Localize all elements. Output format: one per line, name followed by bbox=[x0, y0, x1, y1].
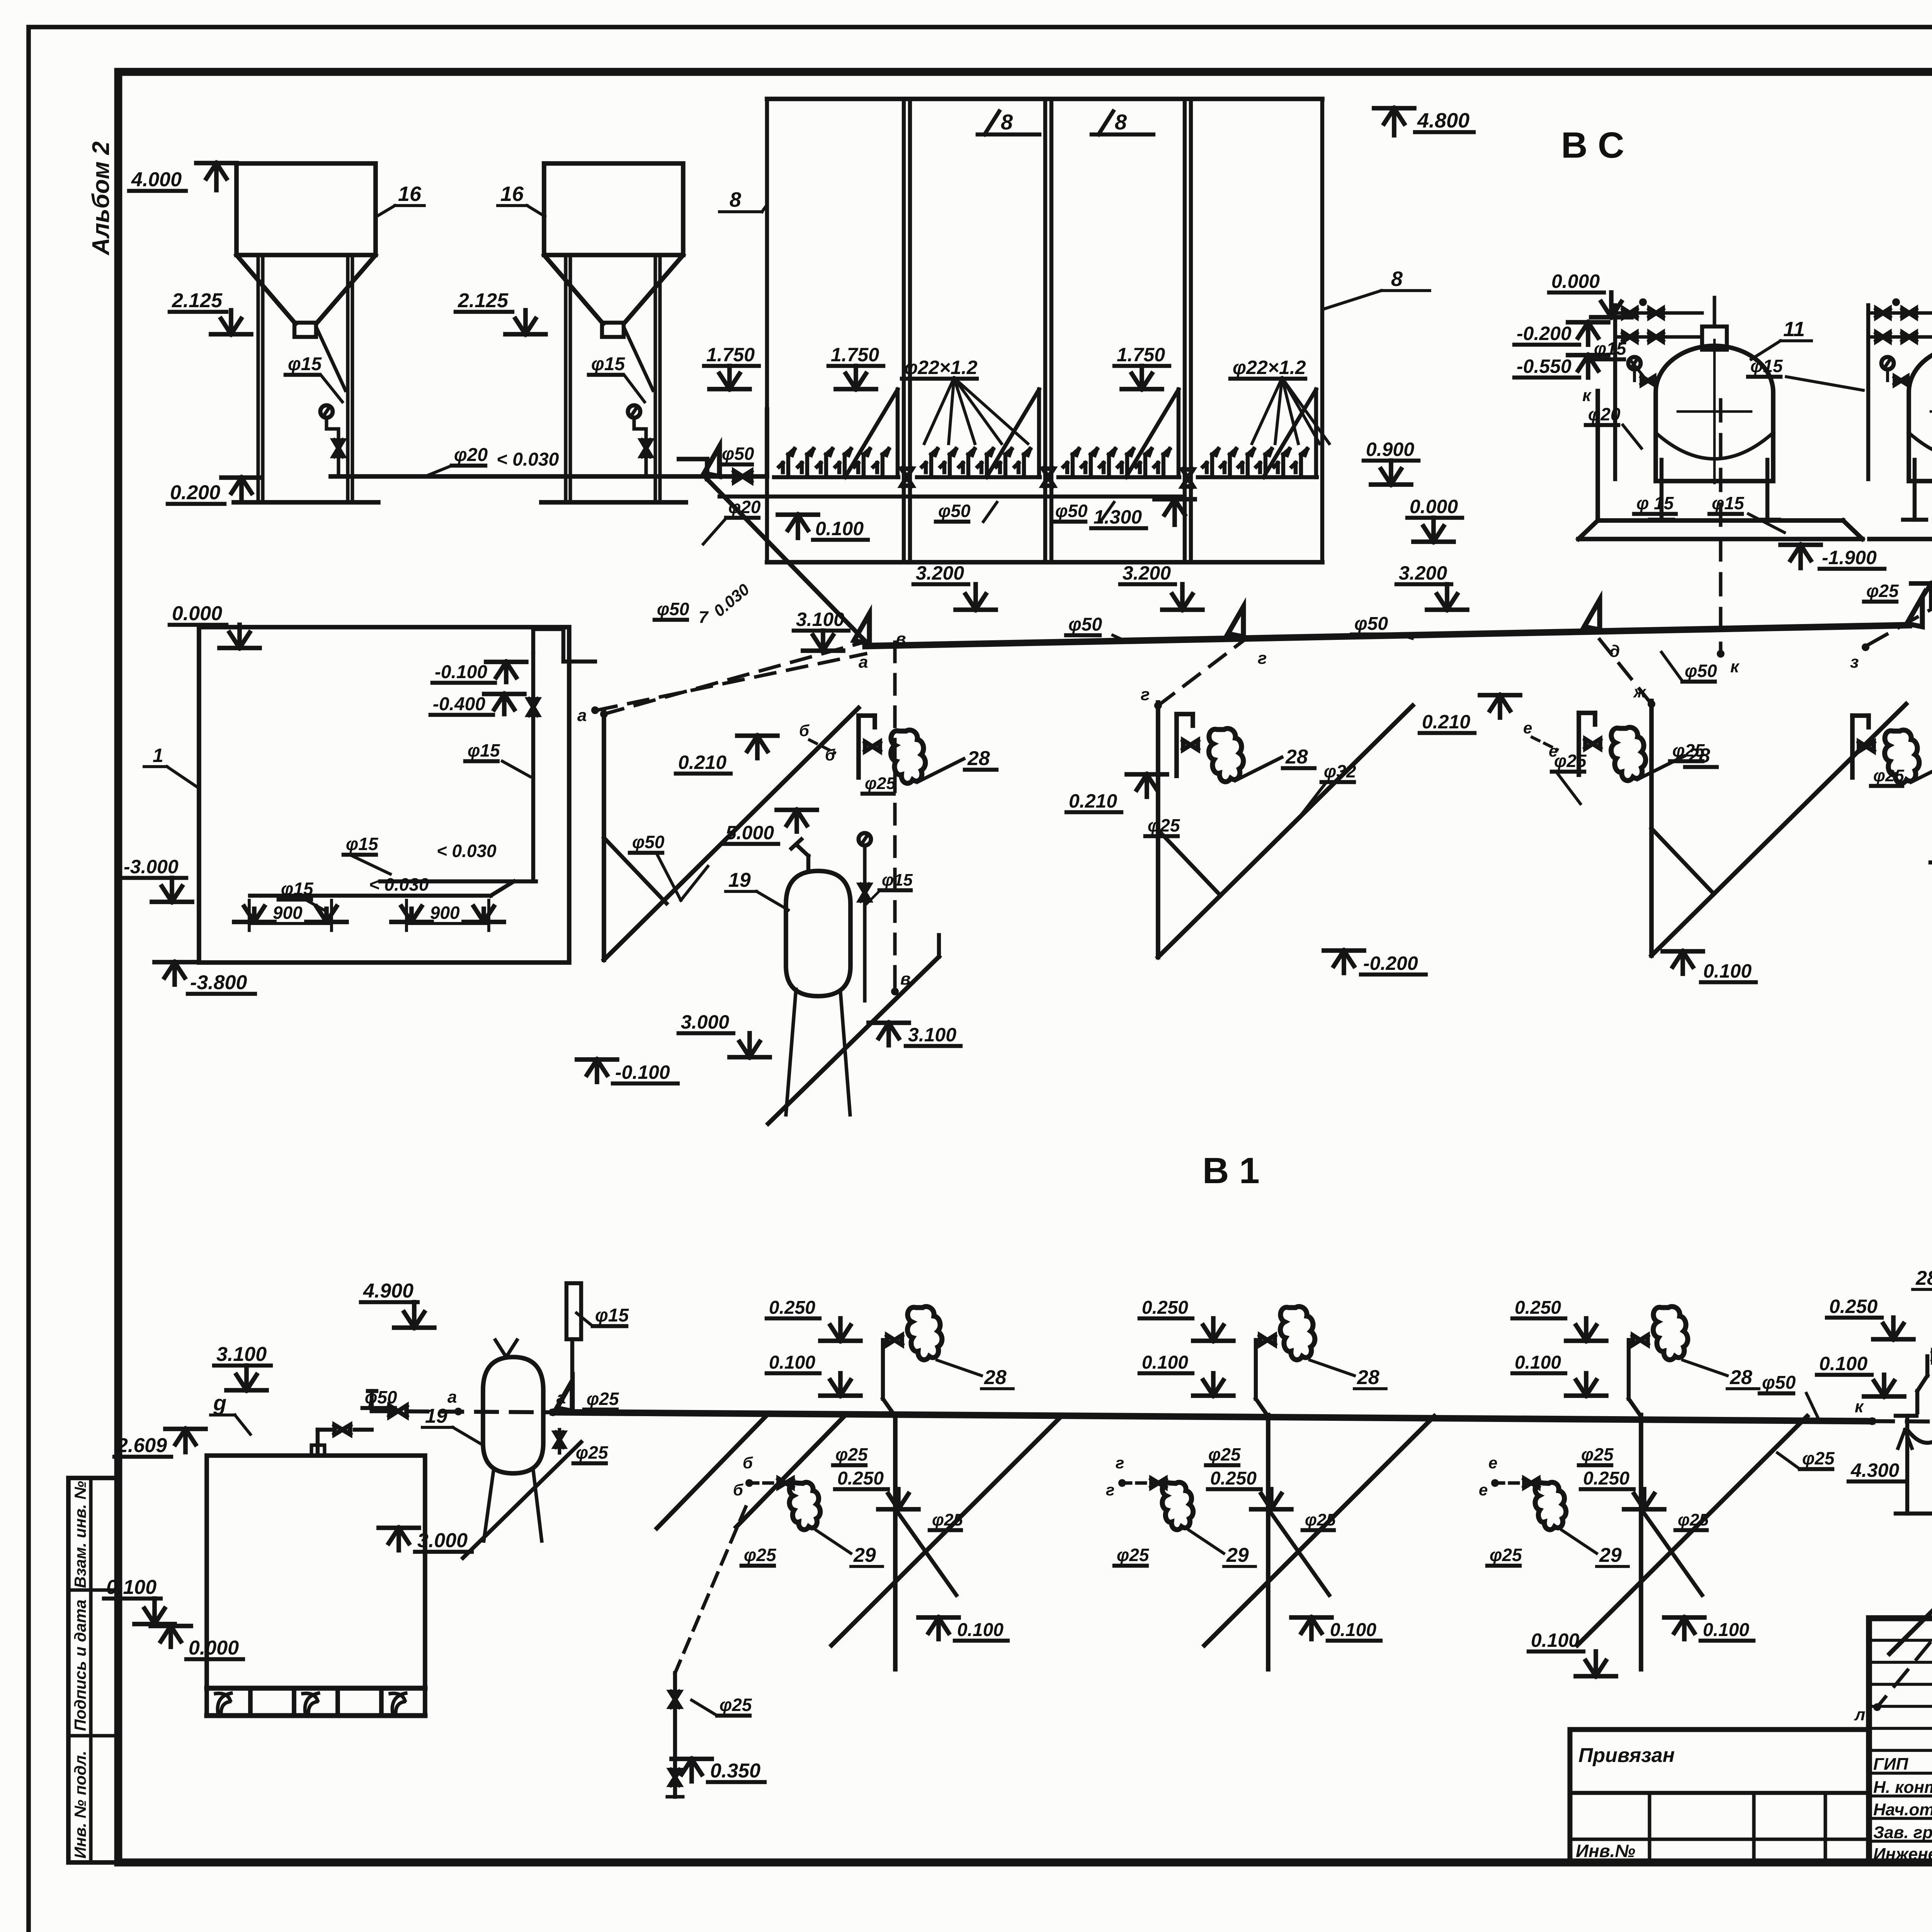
svg-text:0.000: 0.000 bbox=[189, 1637, 239, 1659]
svg-text:0.100: 0.100 bbox=[106, 1576, 156, 1599]
flag a bbox=[854, 614, 869, 644]
svg-text:φ50: φ50 bbox=[1354, 614, 1388, 634]
svg-text:φ22×1.2: φ22×1.2 bbox=[1233, 357, 1306, 378]
dim 0.000 tank d bbox=[168, 1626, 173, 1647]
svg-text:φ25: φ25 bbox=[865, 774, 896, 793]
svg-text:3.100: 3.100 bbox=[796, 609, 844, 630]
svg-text:3.200: 3.200 bbox=[1122, 562, 1171, 584]
svg-text:φ25: φ25 bbox=[1873, 766, 1904, 785]
svg-text:0.100: 0.100 bbox=[957, 1620, 1003, 1640]
svg-text:0.900: 0.900 bbox=[1366, 439, 1414, 460]
B1 fixture 28 #2 bbox=[1256, 1399, 1267, 1414]
vessel 19 #2 platform bbox=[463, 1442, 581, 1558]
VC fixture cluster 3 bbox=[1579, 711, 1595, 715]
svg-text:1.750: 1.750 bbox=[706, 344, 755, 366]
svg-text:φ25: φ25 bbox=[576, 1442, 609, 1463]
svg-text:-3.800: -3.800 bbox=[190, 971, 247, 994]
svg-text:Нач.отд.: Нач.отд. bbox=[1873, 1800, 1932, 1819]
fan lines phi22 panel4 bbox=[1252, 378, 1282, 444]
B1 fixture 28 #3 bbox=[1629, 1399, 1639, 1414]
svg-text:0.210: 0.210 bbox=[678, 752, 726, 773]
svg-text:В С: В С bbox=[1561, 125, 1624, 166]
svg-text:0.100: 0.100 bbox=[1142, 1352, 1188, 1373]
svg-text:φ50: φ50 bbox=[632, 832, 665, 852]
B1 unit 2 bbox=[1266, 1415, 1270, 1669]
svg-text:φ25: φ25 bbox=[744, 1545, 777, 1565]
svg-text:28: 28 bbox=[984, 1366, 1007, 1389]
VC fixture cluster 4 bbox=[1852, 713, 1869, 718]
svg-text:φ25: φ25 bbox=[1581, 1444, 1614, 1464]
svg-text:φ20: φ20 bbox=[454, 445, 488, 465]
svg-text:φ50: φ50 bbox=[1762, 1372, 1796, 1393]
svg-text:б: б bbox=[799, 721, 810, 740]
dim 900 #1 bbox=[249, 922, 332, 925]
vessel 19 #1 bbox=[786, 871, 850, 996]
svg-text:7: 7 bbox=[699, 608, 709, 627]
svg-text:0.100: 0.100 bbox=[1703, 960, 1752, 982]
dashed a to VC bbox=[597, 654, 866, 710]
svg-text:Взам. инв. №: Взам. инв. № bbox=[71, 1481, 89, 1588]
tank 1 internal pipes bbox=[250, 894, 491, 898]
svg-text:б: б bbox=[743, 1454, 753, 1472]
node a house bbox=[591, 706, 599, 714]
vessel 19 #2 bbox=[483, 1357, 543, 1473]
svg-text:-0.550: -0.550 bbox=[1517, 355, 1571, 377]
svg-text:φ20: φ20 bbox=[1588, 404, 1621, 424]
svg-text:28: 28 bbox=[1915, 1267, 1932, 1289]
svg-text:к: к bbox=[1855, 1397, 1864, 1416]
flag g bbox=[1228, 607, 1243, 637]
tank d outline bbox=[207, 1456, 425, 1688]
tank 1 outline bbox=[199, 627, 569, 963]
svg-text:Н. контр.: Н. контр. bbox=[1873, 1778, 1932, 1797]
svg-text:0.000: 0.000 bbox=[1410, 496, 1458, 517]
svg-text:2.609: 2.609 bbox=[116, 1434, 167, 1457]
dim 3.100 v bbox=[886, 1023, 891, 1045]
svg-text:φ15: φ15 bbox=[281, 879, 314, 899]
svg-text:г: г bbox=[1116, 1454, 1124, 1472]
svg-text:16: 16 bbox=[500, 182, 524, 206]
VC unit 3 riser and diagonal bbox=[1649, 701, 1654, 956]
svg-text:в: в bbox=[900, 969, 911, 988]
svg-text:-0.200: -0.200 bbox=[1363, 952, 1418, 974]
privyazan table bbox=[1570, 1730, 1869, 1862]
dashed k gap bbox=[1872, 1421, 1932, 1422]
node a B1 #1 bbox=[454, 1408, 462, 1415]
svg-text:< 0.030: < 0.030 bbox=[497, 449, 559, 470]
flag d bbox=[1584, 600, 1600, 630]
svg-text:8: 8 bbox=[730, 188, 741, 211]
svg-text:28: 28 bbox=[1357, 1366, 1379, 1389]
svg-text:0.250: 0.250 bbox=[837, 1468, 884, 1489]
svg-text:Зав. гр.: Зав. гр. bbox=[1873, 1823, 1932, 1842]
svg-text:в: в bbox=[896, 629, 906, 648]
hopper tank 16 #1 bbox=[236, 163, 376, 255]
node z bbox=[1862, 643, 1869, 651]
dim 0.350 bbox=[689, 1759, 694, 1781]
svg-text:1: 1 bbox=[153, 745, 163, 766]
svg-text:φ15: φ15 bbox=[468, 740, 500, 760]
flag B1 a bbox=[557, 1381, 572, 1411]
svg-text:2.125: 2.125 bbox=[172, 289, 223, 312]
svg-text:0.250: 0.250 bbox=[1515, 1298, 1561, 1318]
VC fixture cluster 1 bbox=[859, 713, 875, 718]
svg-text:g: g bbox=[213, 1391, 226, 1415]
svg-text:φ25: φ25 bbox=[1117, 1545, 1150, 1565]
drain riser 25 bbox=[1905, 1416, 1909, 1514]
svg-text:0.200: 0.200 bbox=[170, 481, 220, 504]
pipe diagonal from tanks to VC line bbox=[707, 479, 869, 645]
svg-text:4.300: 4.300 bbox=[1850, 1459, 1899, 1481]
svg-text:Подпись и дата: Подпись и дата bbox=[71, 1600, 89, 1731]
svg-text:Привязан: Привязан bbox=[1578, 1744, 1675, 1767]
svg-text:< 0.030: < 0.030 bbox=[369, 874, 429, 895]
svg-text:4.800: 4.800 bbox=[1417, 109, 1469, 132]
svg-text:3.200: 3.200 bbox=[1399, 562, 1447, 584]
dashed riser k bbox=[1719, 400, 1722, 654]
svg-text:0.250: 0.250 bbox=[1142, 1298, 1188, 1318]
svg-text:φ22×1.2: φ22×1.2 bbox=[904, 357, 978, 378]
svg-text:900: 900 bbox=[273, 903, 303, 923]
pressure vessel 11 #1 bbox=[1656, 346, 1773, 481]
svg-text:0.210: 0.210 bbox=[1069, 790, 1117, 812]
svg-text:φ50: φ50 bbox=[1068, 614, 1102, 635]
svg-text:0.210: 0.210 bbox=[1422, 711, 1470, 733]
B1 unit 3 bbox=[1639, 1415, 1643, 1669]
svg-text:г: г bbox=[1258, 649, 1267, 668]
svg-text:Инв. № подл.: Инв. № подл. bbox=[71, 1751, 89, 1859]
svg-text:0.250: 0.250 bbox=[1583, 1468, 1629, 1489]
svg-text:28: 28 bbox=[1730, 1366, 1752, 1389]
filter block outline bbox=[767, 97, 1322, 101]
svg-text:ж: ж bbox=[1633, 683, 1646, 701]
flag zh right end bbox=[1907, 597, 1922, 627]
svg-text:8: 8 bbox=[1391, 267, 1403, 291]
svg-text:3.100: 3.100 bbox=[908, 1024, 956, 1046]
svg-text:3.200: 3.200 bbox=[916, 562, 964, 584]
svg-text:16: 16 bbox=[398, 182, 422, 206]
svg-text:4.900: 4.900 bbox=[363, 1280, 413, 1302]
hopper tank 16 #2 bbox=[544, 163, 683, 255]
pipe phi20 horizontal bbox=[331, 474, 767, 479]
svg-text:г: г bbox=[1141, 685, 1150, 704]
VC fixture cluster 2 bbox=[1177, 712, 1193, 716]
dim -3.800 bbox=[172, 962, 177, 985]
svg-text:-0.100: -0.100 bbox=[435, 662, 487, 682]
svg-text:0.250: 0.250 bbox=[769, 1298, 815, 1318]
VC unit 1 riser and diagonal bbox=[602, 710, 606, 960]
svg-text:0.100: 0.100 bbox=[1330, 1620, 1376, 1640]
svg-text:8: 8 bbox=[1115, 110, 1127, 134]
flag left filter riser bbox=[704, 446, 719, 476]
svg-text:29: 29 bbox=[1599, 1544, 1622, 1566]
fan lines phi22 panel2 bbox=[924, 378, 954, 444]
svg-text:Инв.№: Инв.№ bbox=[1576, 1841, 1635, 1861]
B1 left diagonals to tank d area bbox=[657, 1413, 769, 1528]
svg-text:е: е bbox=[1479, 1481, 1488, 1499]
svg-text:28: 28 bbox=[1285, 746, 1308, 768]
svg-text:0.100: 0.100 bbox=[1515, 1352, 1561, 1373]
vessel platform #1 bbox=[1595, 391, 1600, 520]
vessel 19 #1 platform diagonal bbox=[768, 957, 939, 1124]
svg-text:к: к bbox=[1582, 386, 1592, 405]
svg-text:φ50: φ50 bbox=[1685, 661, 1717, 681]
svg-text:3.000: 3.000 bbox=[681, 1011, 729, 1033]
tank d top pipe bbox=[316, 1430, 320, 1456]
svg-text:к: к bbox=[1730, 657, 1740, 676]
VC unit 1 dashed link bbox=[604, 641, 867, 714]
vessel platform #2 bbox=[1869, 537, 1932, 541]
svg-text:φ25: φ25 bbox=[835, 1444, 868, 1464]
tank 1 inlet step bbox=[531, 629, 535, 653]
pipe riser to filters bbox=[765, 410, 769, 476]
filter internal pipes and sprinklers bbox=[774, 475, 898, 479]
vessel 19 gauge and valve bbox=[859, 833, 871, 845]
dim 3.000 vessel19-2 bbox=[396, 1528, 401, 1550]
svg-text:19: 19 bbox=[425, 1405, 447, 1427]
valve B1 left end bbox=[389, 1406, 406, 1417]
svg-text:φ15: φ15 bbox=[1750, 356, 1783, 376]
left margin stamp boxes bbox=[68, 1478, 118, 1862]
svg-text:Инженер: Инженер bbox=[1873, 1845, 1932, 1864]
svg-text:φ25: φ25 bbox=[1490, 1545, 1522, 1565]
tank d hatched base bbox=[207, 1686, 425, 1691]
svg-text:28: 28 bbox=[967, 747, 990, 770]
valve assembly 0.350 bbox=[675, 1507, 746, 1673]
VC unit 2 riser and diagonal bbox=[1156, 702, 1160, 957]
svg-text:φ25: φ25 bbox=[1208, 1444, 1241, 1464]
svg-text:0.100: 0.100 bbox=[1703, 1620, 1749, 1640]
svg-text:φ25: φ25 bbox=[1148, 815, 1180, 835]
svg-text:φ50: φ50 bbox=[657, 599, 689, 619]
svg-text:28: 28 bbox=[1687, 745, 1710, 767]
dashed z to platform 3 bbox=[1869, 468, 1932, 645]
svg-text:а: а bbox=[447, 1388, 457, 1406]
svg-text:-0.200: -0.200 bbox=[1517, 323, 1571, 344]
svg-text:φ50: φ50 bbox=[722, 444, 754, 464]
svg-text:φ15: φ15 bbox=[346, 834, 379, 854]
svg-text:φ15: φ15 bbox=[288, 354, 322, 374]
dim 3.200 up right end bbox=[1929, 583, 1932, 606]
dim 0.100 under panel1 bbox=[796, 515, 800, 538]
svg-text:φ25: φ25 bbox=[719, 1695, 752, 1715]
svg-text:1.750: 1.750 bbox=[1117, 344, 1165, 366]
svg-text:19: 19 bbox=[728, 869, 751, 891]
svg-text:φ15: φ15 bbox=[595, 1305, 629, 1326]
dim -1.900 bbox=[1798, 545, 1803, 568]
svg-text:ГИП: ГИП bbox=[1873, 1755, 1909, 1774]
svg-text:29: 29 bbox=[1226, 1544, 1249, 1566]
svg-text:0.100: 0.100 bbox=[769, 1352, 815, 1373]
svg-text:φ25: φ25 bbox=[1305, 1510, 1336, 1529]
svg-text:0.350: 0.350 bbox=[710, 1760, 760, 1782]
svg-text:0.100: 0.100 bbox=[1531, 1629, 1579, 1651]
svg-text:φ15: φ15 bbox=[882, 871, 913, 889]
valve filter inlet bbox=[734, 471, 751, 482]
svg-text:а: а bbox=[577, 706, 587, 725]
svg-text:л: л bbox=[1854, 1705, 1865, 1724]
svg-text:б: б bbox=[733, 1481, 743, 1499]
B1 fixture 28 #1 bbox=[883, 1399, 894, 1414]
svg-text:3.100: 3.100 bbox=[216, 1343, 267, 1366]
filter collect pipe bbox=[719, 495, 1182, 498]
svg-text:φ50: φ50 bbox=[365, 1387, 397, 1407]
valve right of vessel19-2 bbox=[555, 1433, 564, 1447]
svg-text:е: е bbox=[1523, 719, 1532, 737]
pipe VC main line bbox=[866, 625, 1909, 646]
svg-text:-0.400: -0.400 bbox=[433, 694, 485, 714]
dim 900 #2 bbox=[406, 922, 489, 925]
svg-text:φ50: φ50 bbox=[1055, 501, 1088, 521]
svg-text:-1.900: -1.900 bbox=[1822, 547, 1877, 568]
svg-text:0.100: 0.100 bbox=[1819, 1353, 1867, 1374]
svg-text:11: 11 bbox=[1783, 318, 1805, 341]
title block outline bbox=[1869, 1618, 1932, 1862]
svg-text:0.250: 0.250 bbox=[1829, 1296, 1878, 1317]
B1 unit 1 bbox=[893, 1415, 898, 1669]
svg-text:29: 29 bbox=[853, 1544, 876, 1566]
svg-text:φ15: φ15 bbox=[591, 354, 625, 374]
svg-text:0.100: 0.100 bbox=[815, 518, 864, 539]
svg-text:φ25: φ25 bbox=[587, 1389, 619, 1409]
svg-text:1.300: 1.300 bbox=[1094, 506, 1142, 528]
VC unit 2 dashed link bbox=[1158, 639, 1245, 706]
svg-text:г: г bbox=[1106, 1481, 1114, 1499]
svg-text:φ15: φ15 bbox=[1594, 338, 1627, 359]
svg-text:< 0.030: < 0.030 bbox=[437, 841, 497, 861]
svg-text:φ 15: φ 15 bbox=[1636, 493, 1674, 513]
svg-text:е: е bbox=[1488, 1454, 1497, 1472]
svg-text:-0.100: -0.100 bbox=[615, 1061, 670, 1083]
svg-text:-3.000: -3.000 bbox=[124, 856, 179, 878]
dashed v riser bbox=[893, 642, 896, 989]
svg-text:φ32: φ32 bbox=[1324, 761, 1356, 781]
svg-text:4.000: 4.000 bbox=[131, 168, 182, 191]
svg-text:φ25: φ25 bbox=[932, 1510, 963, 1529]
svg-text:φ25: φ25 bbox=[1802, 1448, 1835, 1468]
filter inter-panel valves bbox=[901, 469, 912, 486]
svg-text:Альбом 2: Альбом 2 bbox=[88, 141, 114, 256]
svg-text:В 1: В 1 bbox=[1202, 1150, 1260, 1191]
pressure vessel 11 #2 bbox=[1909, 346, 1932, 481]
svg-text:φ25: φ25 bbox=[1678, 1510, 1709, 1529]
svg-text:φ15: φ15 bbox=[1712, 493, 1745, 513]
node a B1 #2 bbox=[549, 1408, 557, 1416]
svg-text:з: з bbox=[1850, 653, 1859, 672]
svg-text:5.000: 5.000 bbox=[726, 822, 774, 844]
pipe B1 main line bbox=[553, 1412, 1872, 1421]
svg-text:φ25: φ25 bbox=[1554, 751, 1587, 771]
svg-text:2.125: 2.125 bbox=[457, 289, 509, 312]
VC unit 3 dashed link bbox=[1600, 639, 1651, 704]
svg-text:φ50: φ50 bbox=[938, 501, 971, 521]
dashed B1 left bbox=[372, 1411, 553, 1412]
svg-text:900: 900 bbox=[430, 903, 460, 923]
svg-text:0.000: 0.000 bbox=[172, 602, 222, 625]
svg-text:0.250: 0.250 bbox=[1210, 1468, 1257, 1489]
svg-text:8: 8 bbox=[1001, 110, 1013, 134]
svg-text:0.000: 0.000 bbox=[1551, 270, 1600, 292]
svg-text:φ25: φ25 bbox=[1866, 581, 1899, 601]
dim 4.800 bbox=[1392, 108, 1396, 135]
svg-text:1.750: 1.750 bbox=[831, 344, 879, 366]
